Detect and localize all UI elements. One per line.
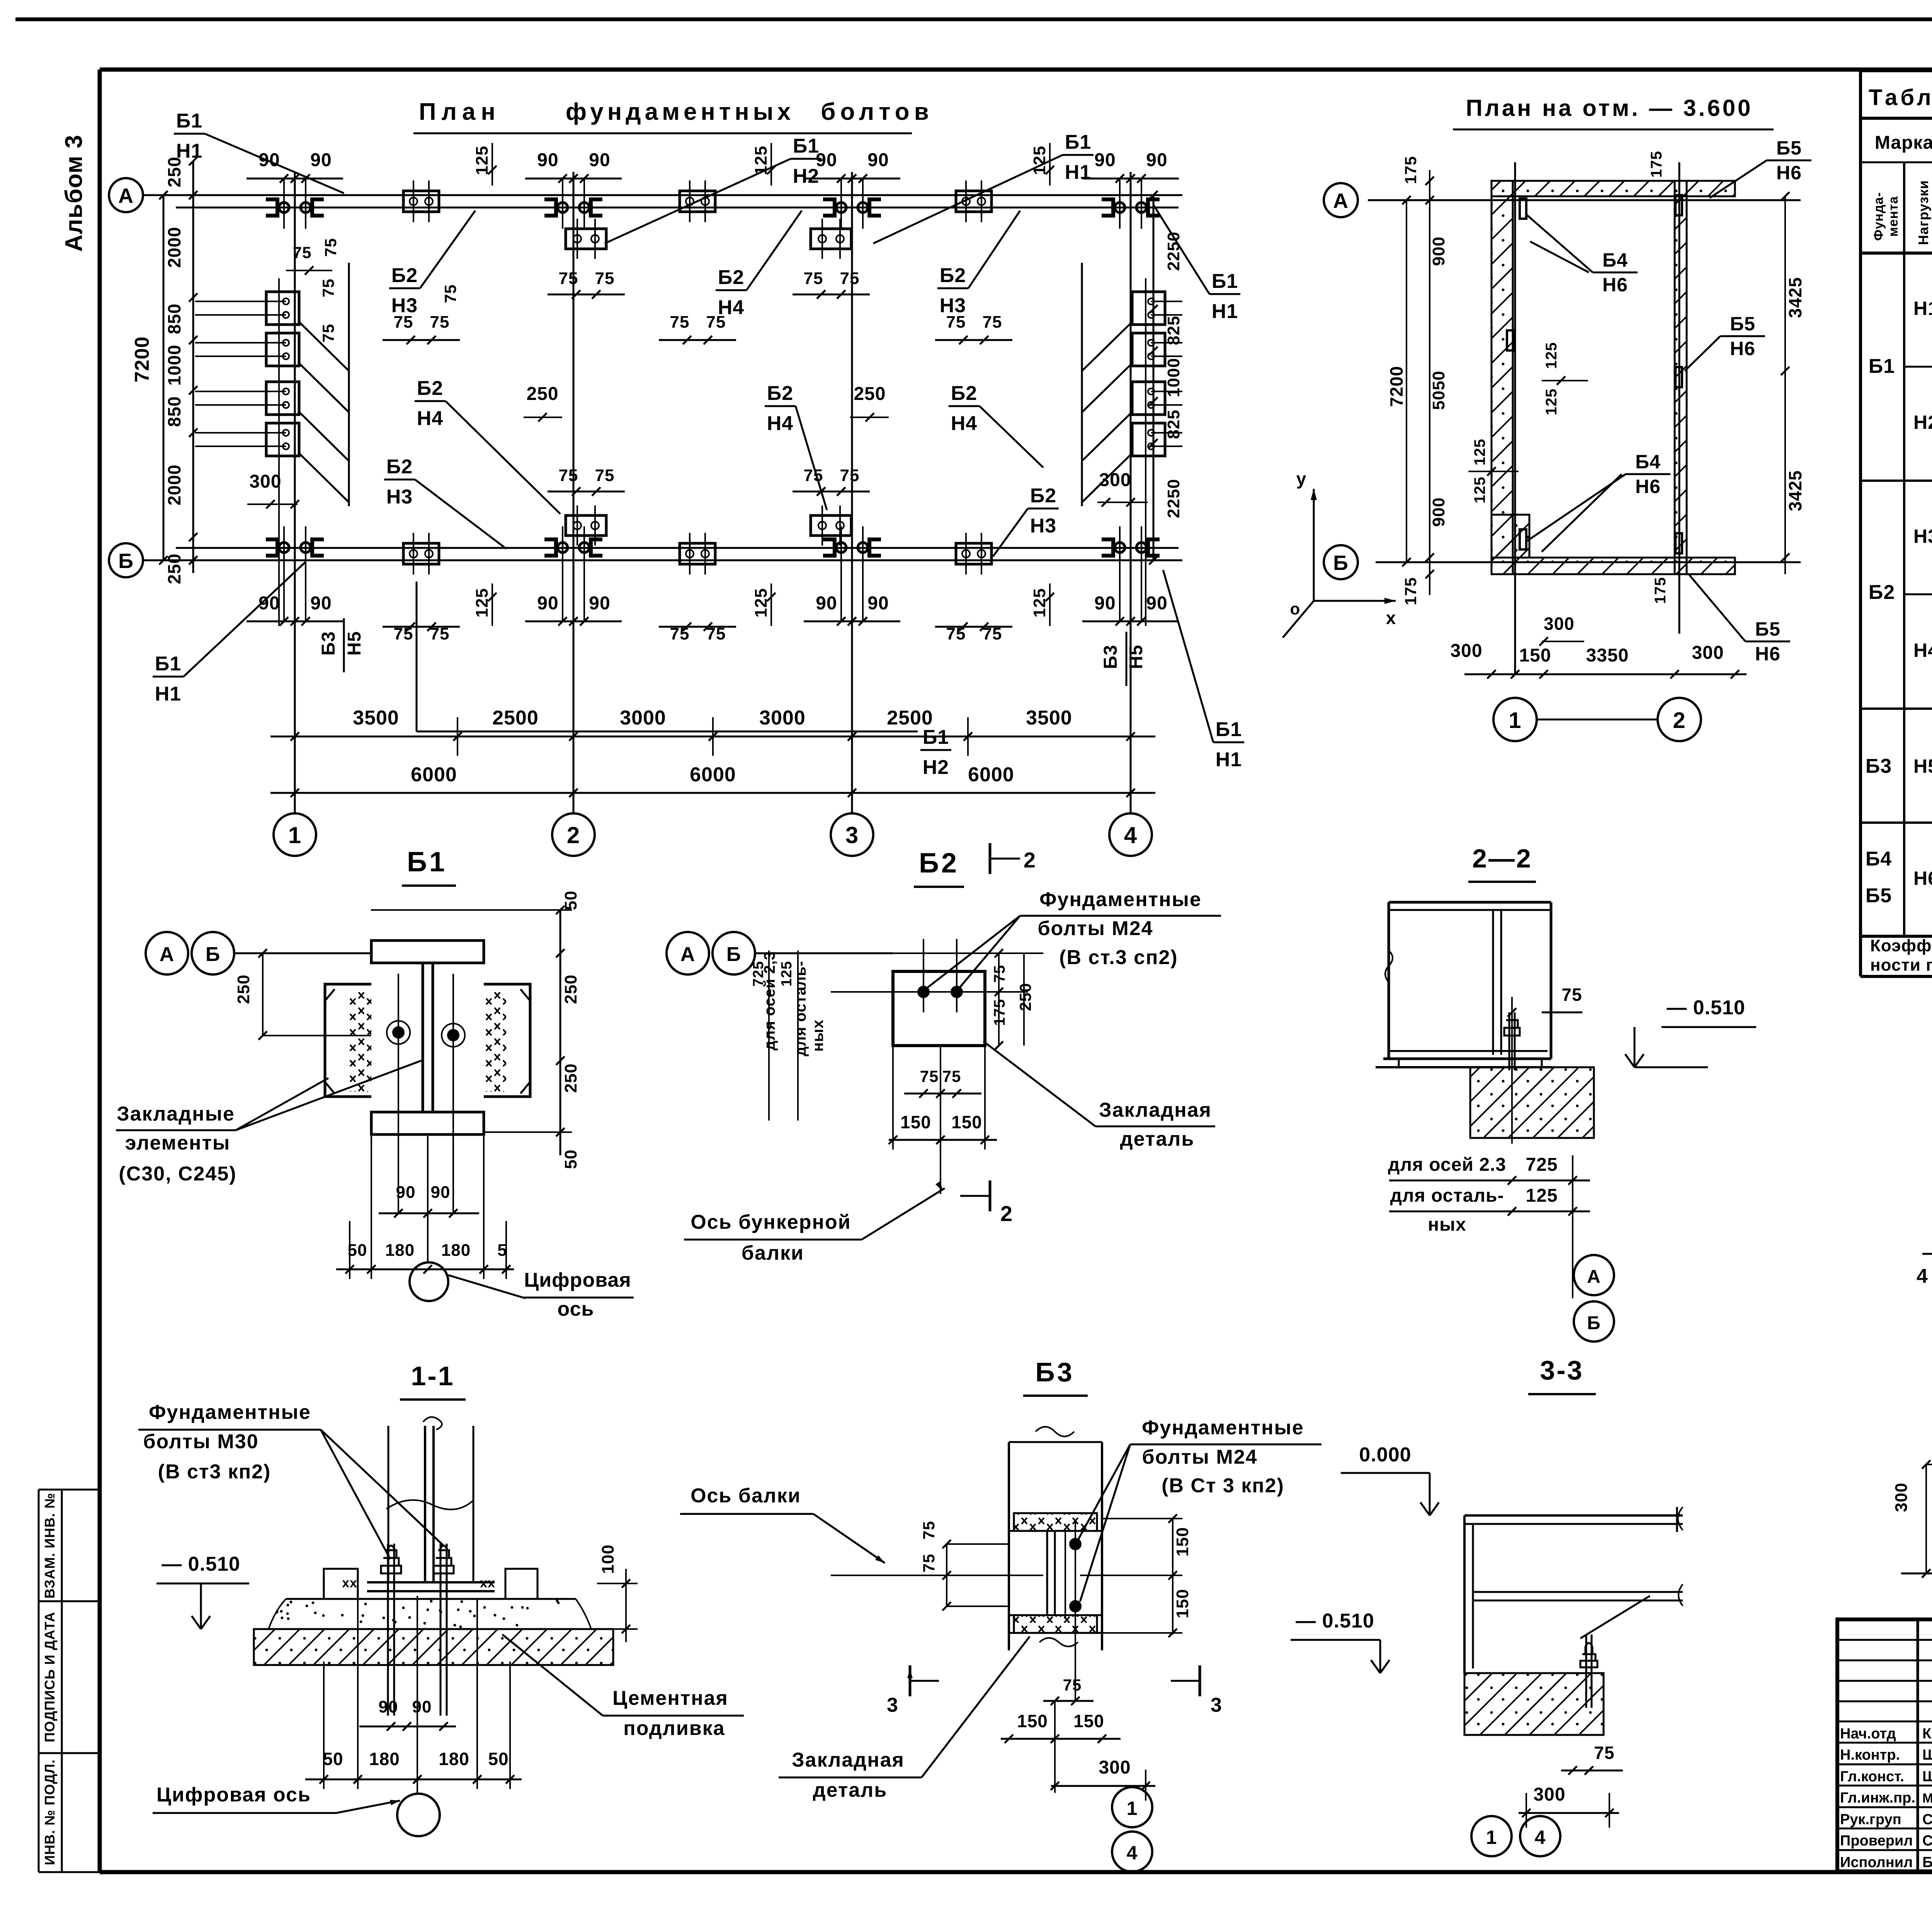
svg-text:Н4: Н4 (417, 407, 443, 430)
svg-text:Б5: Б5 (1866, 884, 1892, 907)
svg-text:1: 1 (288, 822, 301, 848)
svg-text:Закладная: Закладная (1099, 1099, 1212, 1121)
svg-text:А: А (1587, 1267, 1601, 1287)
svg-text:Б3: Б3 (1035, 1357, 1074, 1387)
svg-text:175: 175 (1401, 577, 1420, 605)
svg-text:75: 75 (430, 313, 450, 332)
svg-text:75: 75 (983, 313, 1002, 332)
svg-text:3425: 3425 (1785, 470, 1805, 511)
svg-text:90: 90 (589, 593, 610, 614)
svg-text:50: 50 (323, 1749, 343, 1769)
svg-text:Б2: Б2 (1869, 581, 1895, 604)
svg-text:75: 75 (804, 466, 823, 485)
svg-text:90: 90 (589, 150, 610, 170)
svg-text:75: 75 (1594, 1743, 1614, 1763)
svg-text:для осталь-: для осталь- (1390, 1185, 1504, 1206)
svg-text:Фунда-: Фунда- (1871, 192, 1886, 241)
svg-text:3: 3 (1211, 1694, 1222, 1716)
svg-text:болты М24: болты М24 (1037, 917, 1153, 940)
svg-text:Фундаментные: Фундаментные (149, 1401, 311, 1423)
svg-text:100: 100 (599, 1544, 617, 1574)
svg-text:300: 300 (1099, 1757, 1131, 1778)
svg-text:деталь: деталь (1120, 1128, 1195, 1150)
svg-text:деталь: деталь (813, 1779, 888, 1801)
svg-text:План: План (419, 99, 501, 125)
svg-text:3: 3 (845, 822, 859, 848)
svg-text:Н6: Н6 (1730, 338, 1755, 359)
svg-text:Б1: Б1 (1216, 718, 1242, 741)
svg-text:3350: 3350 (1586, 645, 1629, 666)
svg-text:Н6: Н6 (1755, 643, 1781, 665)
svg-text:Н2: Н2 (1913, 412, 1932, 433)
svg-text:4: 4 (1917, 1265, 1928, 1287)
svg-text:300: 300 (1892, 1483, 1911, 1512)
svg-text:Б3: Б3 (318, 631, 339, 655)
svg-text:мента: мента (1886, 196, 1901, 236)
svg-text:250: 250 (561, 1063, 580, 1093)
svg-text:5050: 5050 (1429, 371, 1448, 410)
svg-text:Н6: Н6 (1602, 274, 1628, 296)
svg-text:250: 250 (164, 553, 184, 584)
svg-text:Б4: Б4 (1635, 451, 1661, 473)
svg-text:Б: Б (118, 549, 134, 573)
svg-text:250: 250 (234, 975, 253, 1004)
svg-text:150: 150 (1073, 1711, 1104, 1731)
svg-text:90: 90 (1146, 150, 1167, 170)
svg-text:Н5: Н5 (1913, 755, 1932, 777)
svg-text:180: 180 (385, 1241, 415, 1260)
svg-text:125: 125 (1471, 439, 1488, 466)
svg-text:125: 125 (1526, 1185, 1558, 1206)
svg-text:90: 90 (310, 593, 332, 614)
svg-text:850: 850 (164, 303, 184, 334)
svg-text:2: 2 (1000, 1201, 1013, 1226)
svg-text:50: 50 (348, 1241, 367, 1260)
svg-text:Н6: Н6 (1913, 867, 1932, 889)
svg-text:Сысоев: Сысоев (1922, 1811, 1932, 1828)
svg-text:План на отм. — 3.600: План на отм. — 3.600 (1466, 95, 1753, 121)
svg-text:250: 250 (526, 384, 558, 404)
svg-text:1000: 1000 (164, 345, 184, 386)
svg-text:75: 75 (595, 269, 615, 288)
svg-text:175: 175 (1648, 151, 1665, 178)
svg-text:Б5: Б5 (1776, 137, 1802, 159)
svg-text:725: 725 (1526, 1155, 1558, 1175)
svg-text:Б: Б (726, 943, 741, 966)
svg-text:Б1: Б1 (1065, 131, 1091, 153)
svg-text:2: 2 (1673, 708, 1685, 733)
svg-text:Закладная: Закладная (792, 1749, 905, 1771)
svg-text:3425: 3425 (1785, 277, 1805, 318)
svg-text:175: 175 (1652, 577, 1669, 604)
svg-text:Б1: Б1 (407, 847, 447, 878)
svg-text:4: 4 (1124, 822, 1137, 848)
svg-text:ности по нагрузке: ности по нагрузке (1870, 956, 1932, 975)
svg-text:7200: 7200 (1386, 366, 1406, 407)
svg-text:болты М24: болты М24 (1142, 1446, 1257, 1468)
svg-text:Шейнич: Шейнич (1922, 1747, 1932, 1763)
svg-text:Цементная: Цементная (612, 1687, 728, 1709)
svg-text:Б2: Б2 (391, 264, 418, 287)
svg-text:— 0.510: — 0.510 (1296, 1610, 1374, 1632)
svg-text:Таблица: Таблица (1869, 85, 1932, 110)
svg-text:900: 900 (1429, 236, 1448, 266)
svg-text:Шейнич: Шейнич (1922, 1769, 1932, 1785)
svg-text:300: 300 (1544, 614, 1575, 634)
svg-text:75: 75 (321, 238, 340, 257)
svg-text:Н1: Н1 (1065, 161, 1091, 184)
svg-text:90: 90 (537, 150, 558, 170)
svg-text:Б1: Б1 (1212, 270, 1238, 293)
svg-text:90: 90 (867, 150, 889, 170)
svg-text:75: 75 (920, 1521, 938, 1540)
svg-text:Б2: Б2 (951, 382, 977, 405)
svg-text:75: 75 (840, 269, 860, 288)
svg-text:125: 125 (1471, 476, 1488, 503)
svg-text:90: 90 (259, 150, 280, 170)
svg-text:6000: 6000 (968, 764, 1014, 786)
svg-text:2: 2 (567, 822, 580, 848)
svg-text:150: 150 (1173, 1527, 1192, 1556)
svg-text:3000: 3000 (759, 707, 806, 729)
svg-text:90: 90 (537, 593, 558, 614)
svg-text:Марка: Марка (1875, 133, 1932, 153)
svg-text:2250: 2250 (1164, 479, 1183, 518)
svg-text:4: 4 (1535, 1827, 1546, 1848)
svg-text:6000: 6000 (411, 764, 457, 786)
svg-text:150: 150 (1519, 645, 1551, 666)
svg-text:Ось балки: Ось балки (690, 1485, 801, 1507)
svg-text:3-3: 3-3 (1540, 1355, 1583, 1385)
svg-text:1: 1 (1127, 1798, 1138, 1819)
svg-text:Н3: Н3 (940, 294, 966, 317)
svg-text:А: А (160, 943, 175, 966)
svg-text:Ось бункерной: Ось бункерной (690, 1211, 851, 1233)
svg-text:125: 125 (1030, 588, 1049, 617)
svg-text:0.000: 0.000 (1359, 1444, 1411, 1466)
svg-text:900: 900 (1429, 497, 1448, 527)
svg-text:75: 75 (840, 466, 860, 485)
svg-text:А: А (118, 184, 134, 207)
svg-text:75: 75 (804, 269, 823, 288)
svg-text:90: 90 (1146, 593, 1167, 614)
svg-text:А: А (680, 943, 696, 966)
svg-text:1: 1 (1509, 708, 1521, 733)
svg-text:Б2: Б2 (417, 377, 443, 400)
svg-text:1-1: 1-1 (411, 1361, 454, 1391)
svg-text:Б3: Б3 (1100, 645, 1121, 669)
svg-text:Б5: Б5 (1755, 618, 1781, 640)
svg-text:Н4: Н4 (767, 412, 793, 435)
svg-text:Б2: Б2 (767, 382, 793, 405)
svg-text:50: 50 (561, 1150, 580, 1169)
svg-text:125: 125 (1030, 146, 1049, 175)
svg-text:Н3: Н3 (1030, 515, 1056, 537)
svg-text:3500: 3500 (1026, 707, 1072, 729)
svg-text:2—2: 2—2 (1472, 844, 1532, 873)
svg-text:300: 300 (1533, 1784, 1565, 1805)
svg-text:125: 125 (752, 146, 770, 175)
svg-text:90: 90 (412, 1697, 432, 1716)
svg-text:ных: ных (1428, 1214, 1466, 1235)
svg-text:3: 3 (887, 1694, 898, 1716)
svg-text:125: 125 (779, 961, 795, 986)
svg-text:2000: 2000 (164, 464, 184, 505)
svg-text:75: 75 (595, 466, 615, 485)
svg-text:75: 75 (559, 269, 578, 288)
svg-text:825: 825 (1164, 316, 1183, 345)
svg-text:75: 75 (1063, 1676, 1082, 1694)
svg-text:(В ст.3 сп2): (В ст.3 сп2) (1059, 946, 1178, 969)
svg-text:90: 90 (816, 593, 837, 614)
svg-text:Н5: Н5 (344, 631, 365, 655)
svg-text:Закладные: Закладные (117, 1103, 235, 1125)
svg-text:болты М30: болты М30 (143, 1430, 259, 1453)
svg-text:Б1: Б1 (176, 110, 202, 132)
svg-text:Н3: Н3 (386, 486, 413, 508)
svg-text:825: 825 (1164, 410, 1183, 439)
svg-text:75: 75 (920, 1554, 938, 1573)
svg-text:— 0.510: — 0.510 (1667, 997, 1745, 1019)
svg-text:Мельниченко: Мельниченко (1922, 1791, 1932, 1806)
svg-text:90: 90 (310, 150, 332, 170)
svg-text:75: 75 (559, 466, 578, 485)
svg-text:850: 850 (164, 396, 184, 427)
svg-text:Б: Б (206, 943, 220, 966)
svg-text:Б1: Б1 (923, 726, 949, 748)
svg-text:Гл.инж.пр.: Гл.инж.пр. (1840, 1790, 1915, 1806)
svg-text:4: 4 (1127, 1842, 1138, 1864)
svg-text:Н4: Н4 (718, 296, 744, 319)
svg-text:болтов: болтов (821, 99, 934, 125)
svg-text:Н1: Н1 (155, 683, 181, 705)
svg-text:75: 75 (670, 313, 690, 332)
svg-text:Рук.груп: Рук.груп (1840, 1811, 1901, 1828)
svg-text:балки: балки (742, 1242, 804, 1264)
svg-text:Н2: Н2 (793, 165, 819, 187)
svg-text:(В Ст 3 кп2): (В Ст 3 кп2) (1162, 1475, 1284, 1497)
svg-text:90: 90 (867, 593, 889, 614)
svg-text:Б2: Б2 (919, 848, 959, 879)
svg-text:90: 90 (396, 1183, 416, 1202)
svg-text:125: 125 (1543, 342, 1560, 369)
svg-text:ных: ных (810, 1019, 827, 1052)
svg-text:(В ст3 кп2): (В ст3 кп2) (158, 1461, 271, 1483)
svg-text:элементы: элементы (125, 1132, 231, 1154)
svg-text:Н1: Н1 (1216, 748, 1242, 771)
svg-text:Н4: Н4 (951, 412, 977, 435)
svg-text:Фундаментные: Фундаментные (1039, 888, 1202, 911)
svg-text:300: 300 (249, 471, 281, 492)
svg-text:1: 1 (1486, 1827, 1497, 1848)
svg-text:Н1: Н1 (1913, 298, 1932, 319)
svg-text:180: 180 (439, 1749, 469, 1769)
svg-text:Б: Б (1333, 551, 1349, 575)
svg-text:ВЗАМ. ИНВ. №: ВЗАМ. ИНВ. № (42, 1493, 58, 1599)
svg-text:Б2: Б2 (940, 264, 966, 287)
svg-text:250: 250 (1016, 983, 1034, 1011)
svg-text:Фундаментные: Фундаментные (1142, 1417, 1304, 1439)
svg-text:7200: 7200 (131, 336, 153, 383)
svg-text:Н2: Н2 (923, 756, 949, 779)
svg-text:90: 90 (379, 1697, 398, 1716)
svg-text:3500: 3500 (353, 707, 399, 729)
svg-text:125: 125 (473, 146, 492, 175)
svg-text:Исполнил: Исполнил (1840, 1854, 1913, 1871)
svg-text:Б4: Б4 (1602, 249, 1628, 271)
svg-text:Н6: Н6 (1635, 476, 1661, 497)
svg-text:Б5: Б5 (1730, 313, 1755, 335)
svg-text:725: 725 (750, 961, 767, 986)
svg-text:125: 125 (752, 588, 770, 617)
svg-text:Н1: Н1 (176, 140, 202, 162)
svg-text:А: А (1333, 189, 1349, 213)
svg-text:50: 50 (561, 891, 580, 910)
svg-text:Н3: Н3 (391, 294, 418, 317)
svg-text:75: 75 (293, 243, 312, 262)
svg-text:75: 75 (920, 1067, 939, 1085)
svg-text:— 0.510: — 0.510 (162, 1553, 240, 1575)
svg-text:Нагрузки: Нагрузки (1915, 180, 1931, 245)
svg-text:Б1: Б1 (155, 653, 181, 675)
svg-text:ИНВ. № ПОДЛ.: ИНВ. № ПОДЛ. (42, 1759, 58, 1865)
svg-text:о: о (1290, 600, 1301, 618)
svg-text:75: 75 (1561, 985, 1582, 1005)
svg-text:фундаментных: фундаментных (566, 99, 794, 125)
svg-text:150: 150 (900, 1112, 931, 1132)
svg-text:x: x (1386, 608, 1396, 628)
svg-text:250: 250 (561, 975, 580, 1004)
svg-text:Н5: Н5 (1126, 645, 1146, 669)
svg-text:6000: 6000 (690, 764, 736, 786)
svg-text:Б2: Б2 (386, 456, 413, 478)
svg-text:Сысоев: Сысоев (1922, 1833, 1932, 1849)
svg-text:50: 50 (488, 1749, 509, 1769)
svg-text:у: у (1296, 469, 1307, 489)
svg-text:Цифровая: Цифровая (524, 1269, 631, 1291)
svg-text:Б: Б (1587, 1313, 1601, 1333)
svg-text:Н3: Н3 (1913, 526, 1932, 547)
svg-text:Б1: Б1 (793, 135, 819, 157)
svg-text:75: 75 (441, 284, 459, 303)
svg-text:Б1: Б1 (1869, 355, 1895, 378)
svg-text:75: 75 (319, 279, 337, 298)
svg-text:300: 300 (1450, 641, 1482, 661)
svg-text:150: 150 (1173, 1589, 1192, 1618)
svg-text:для осей 2.3: для осей 2.3 (1388, 1155, 1506, 1175)
svg-text:90: 90 (431, 1183, 451, 1202)
svg-text:Гл.конст.: Гл.конст. (1840, 1769, 1904, 1785)
svg-text:Проверил: Проверил (1840, 1833, 1913, 1849)
svg-text:Н6: Н6 (1776, 162, 1802, 184)
svg-text:Н4: Н4 (1913, 639, 1932, 661)
svg-text:Б3: Б3 (1866, 755, 1892, 777)
svg-text:ось: ось (558, 1298, 594, 1320)
svg-text:90: 90 (1094, 593, 1116, 614)
svg-text:2000: 2000 (164, 227, 184, 268)
svg-text:250: 250 (854, 384, 886, 404)
svg-text:150: 150 (1017, 1711, 1048, 1731)
svg-text:Б2: Б2 (1030, 485, 1056, 507)
svg-text:Коэффициент надеж-: Коэффициент надеж- (1870, 936, 1932, 955)
svg-text:(С30, С245): (С30, С245) (119, 1163, 236, 1185)
svg-text:300: 300 (1692, 643, 1724, 663)
svg-text:3000: 3000 (620, 707, 666, 729)
svg-text:Крыжба: Крыжба (1922, 1726, 1932, 1742)
svg-text:хх: хх (480, 1576, 495, 1590)
svg-text:180: 180 (441, 1241, 471, 1260)
svg-text:Цифровая ось: Цифровая ось (156, 1784, 311, 1806)
svg-text:90: 90 (1094, 150, 1116, 170)
svg-text:хх: хх (342, 1576, 357, 1590)
svg-text:Н.контр.: Н.контр. (1840, 1747, 1900, 1763)
svg-text:Альбом 3: Альбом 3 (61, 134, 87, 252)
svg-text:180: 180 (369, 1749, 400, 1769)
svg-text:Беляева: Беляева (1922, 1854, 1932, 1871)
svg-text:2500: 2500 (492, 707, 539, 729)
svg-text:175: 175 (1401, 156, 1420, 184)
svg-text:125: 125 (473, 588, 492, 617)
svg-text:150: 150 (951, 1112, 982, 1132)
svg-text:125: 125 (1543, 388, 1560, 415)
svg-text:Б4: Б4 (1866, 848, 1892, 870)
svg-text:подливка: подливка (623, 1717, 725, 1740)
svg-text:Н1: Н1 (1212, 300, 1238, 323)
svg-text:2: 2 (1024, 848, 1036, 872)
svg-text:75: 75 (942, 1067, 961, 1085)
svg-text:ПОДПИСЬ И ДАТА: ПОДПИСЬ И ДАТА (42, 1612, 58, 1742)
svg-text:Нач.отд: Нач.отд (1840, 1726, 1896, 1742)
svg-text:75: 75 (319, 324, 337, 343)
svg-text:Б2: Б2 (718, 266, 744, 289)
